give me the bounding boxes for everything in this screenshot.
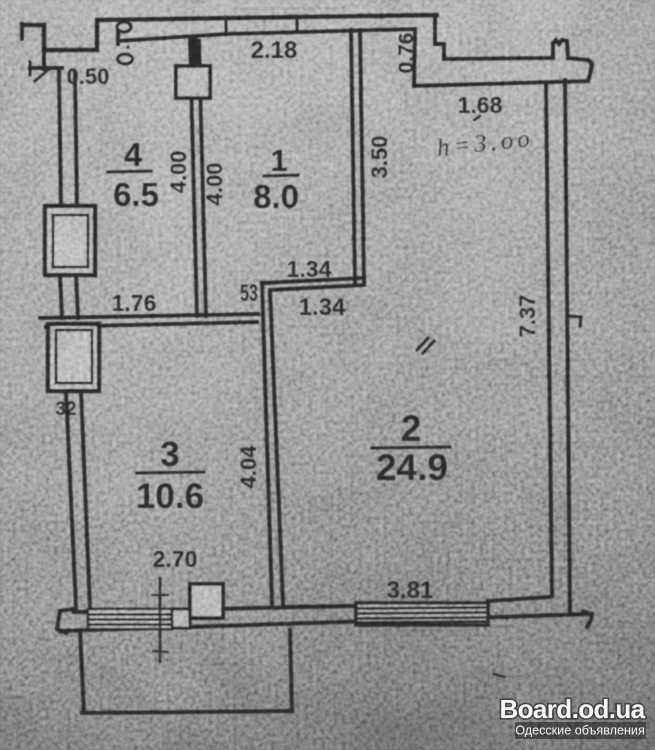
wire: top right outer step (435, 15, 588, 60)
dim 7.37 rotated (515, 295, 540, 338)
wire: entry left end tick (20, 24, 24, 39)
wire: top right outer tick hook (588, 60, 592, 78)
wire: left wall pair upper right (75, 72, 77, 206)
dim 0.76 rotated (395, 33, 418, 74)
label room3 number (160, 435, 179, 474)
wire: bottom wall outer line full (60, 614, 592, 631)
label room4 area (113, 176, 159, 213)
wire: top wall lower face (118, 29, 415, 41)
window box2 outer (48, 324, 99, 391)
wire: divider wall room3-room2 left line (262, 283, 272, 604)
wire: room1 right wall outer (360, 30, 364, 281)
wire: top wall tick b (296, 16, 299, 31)
door box on room3 bottom wall (190, 584, 223, 618)
wire: room4-room1 wall left line (190, 41, 197, 316)
balcony left wall (80, 630, 84, 713)
door dot (126, 45, 129, 48)
dim 3.81 (387, 577, 434, 604)
wire: bottom wall right hook (583, 612, 592, 627)
dim 4.04 rotated (236, 445, 261, 489)
wire: 2.70 dim tick (153, 651, 168, 652)
dim 1.34 upper (287, 256, 332, 282)
wire: room4-room1 wall right line (199, 41, 206, 316)
watermark strip (515, 722, 646, 739)
window box2 inner (56, 330, 92, 383)
wire: 0.50 dim tick (29, 62, 32, 75)
handwritten apostrophe speck (474, 116, 480, 120)
label room3 bar (137, 472, 204, 473)
wire: left wall pair mid right (76, 275, 78, 318)
door box on room4-room1 wall (176, 66, 210, 98)
wire: room4 bottom wall upper line (40, 314, 258, 318)
small white box right of hatch (172, 609, 190, 628)
label room1 bar (264, 175, 298, 176)
wire: left wall pair upper left (59, 72, 61, 206)
dim 1.76 (112, 290, 157, 316)
dim 53 rotated (240, 281, 258, 307)
wire: room1 bottom step upper line (262, 278, 364, 283)
wire: left wall pair mid left (60, 275, 62, 318)
wire: bottom wall room2 upper segment left of window (283, 606, 353, 607)
wire: bottom wall room3 upper line (74, 606, 353, 612)
faint scan streak (235, 8, 345, 9)
window hatch room3 (88, 609, 172, 629)
wire: top wall tick a (225, 17, 228, 33)
dim 2.70 (153, 546, 198, 572)
wire: right wall outer line (565, 80, 570, 612)
door circle upper (117, 22, 131, 32)
wire: top-left entry notch outline (22, 20, 97, 50)
label room2 number (401, 408, 422, 449)
wire: 2.70 dim tick upper (152, 594, 168, 596)
dim 1.34 lower (299, 294, 346, 321)
wire: thick wall above door box (193, 39, 194, 67)
door bar (116, 31, 120, 44)
wire: top right inner horizontal (414, 81, 588, 86)
window hatch room2 (356, 603, 488, 625)
dim 0.50 (67, 64, 110, 89)
label room1 area (253, 178, 299, 215)
label room4 number (124, 136, 143, 173)
wire: top wall upper line (101, 15, 437, 20)
wire: left wall pair lower right (81, 391, 90, 608)
wire: 0.50 dim line (30, 66, 62, 70)
wire: 2.70 dimension line (159, 578, 162, 662)
wire: divider wall room3-room2 right line (270, 290, 283, 604)
wire: room1 bottom step lower line (270, 285, 364, 290)
dim 3.50 rotated (367, 136, 392, 179)
dim 32 (55, 399, 76, 420)
wire: right wall jog (570, 316, 581, 326)
label room2 area (376, 447, 448, 488)
label room1 number (270, 143, 287, 178)
window box1 outer (45, 206, 95, 275)
wire: left wall pair lower left (66, 391, 76, 608)
handwritten h=3.00 (436, 125, 535, 162)
label room3 area (136, 477, 204, 516)
door circle lower (118, 54, 133, 64)
wire: right wall inner line (546, 84, 552, 596)
dim 4.00 right rotated (202, 163, 227, 206)
balcony bottom wall (82, 711, 292, 713)
balcony right wall (290, 630, 292, 711)
wire: room1 right wall inner (351, 30, 355, 283)
watermark Board.od.ua (499, 694, 646, 739)
wire: bottom wall left hook (57, 609, 74, 633)
wire: room4 bottom wall lower line (46, 322, 257, 327)
label room4 bar (108, 171, 151, 172)
wire: 0.50 slash (35, 70, 48, 81)
dim 1.68 (458, 92, 503, 118)
wire: top right inner vertical 0.76 (414, 31, 415, 86)
label room2 bar (372, 447, 450, 448)
handdrawn mark in room2 (417, 338, 434, 353)
small speck bottom right (494, 674, 505, 677)
dim 4.00 left rotated (166, 151, 191, 194)
wire: notch bottom drop (42, 50, 46, 69)
wire: bottom wall room2 upper segment right of window (488, 597, 549, 601)
window box1 inner (53, 215, 88, 267)
dim 2.18 (251, 37, 298, 64)
